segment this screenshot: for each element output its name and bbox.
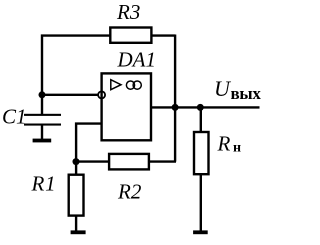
- svg-text:C1: C1: [2, 105, 27, 129]
- resistor R3: [110, 28, 151, 43]
- svg-text:н: н: [233, 141, 241, 156]
- capacitor C1 top plate: [24, 114, 61, 116]
- wire: non-inverting input to node B vertical: [76, 124, 102, 162]
- wire: Rn bottom to ground: [200, 174, 202, 231]
- wire: inverting input from node A to bubble: [42, 94, 99, 96]
- svg-text:R1: R1: [31, 172, 57, 196]
- resistor R1: [69, 175, 84, 216]
- op-amp inversion bubble: [98, 91, 105, 98]
- node: junction A dot: [39, 91, 46, 98]
- wire: load drop from output node to Rn: [200, 107, 202, 132]
- op-amp triangle symbol: [111, 80, 121, 90]
- wire: node A vertical + top horizontal to R3 left: [42, 36, 110, 115]
- svg-text:U: U: [214, 76, 232, 101]
- wire: C1 bottom plate to ground: [41, 126, 43, 140]
- wire: node B to R2 left: [75, 160, 109, 162]
- ground under C1: [33, 139, 52, 143]
- node: output-load junction dot: [197, 104, 204, 111]
- wire: node B down to R1: [75, 162, 77, 175]
- ground under Rn: [193, 230, 208, 234]
- wire: feedback vertical x=175 from R3 down to R2 right: [174, 35, 176, 162]
- svg-text:DA1: DA1: [117, 48, 157, 72]
- ground under R1: [71, 230, 86, 234]
- resistor R2: [109, 154, 149, 170]
- node: junction B dot: [73, 158, 80, 165]
- svg-text:R: R: [217, 132, 231, 156]
- node: output-feedback junction dot: [172, 104, 179, 111]
- svg-text:вых: вых: [231, 84, 262, 103]
- wire: R1 bottom to ground: [75, 215, 77, 231]
- wire: R2 right to feedback vertical: [149, 160, 176, 162]
- wire: op-amp output to right edge: [151, 106, 260, 108]
- capacitor C1 bottom plate: [24, 124, 61, 126]
- svg-text:R2: R2: [117, 180, 142, 204]
- wire: R3 right to feedback vertical: [152, 34, 175, 36]
- op-amp DA1 body: [102, 73, 151, 140]
- op-amp infinity symbol: [126, 81, 141, 89]
- svg-text:R3: R3: [116, 0, 140, 24]
- resistor Rn: [194, 132, 209, 174]
